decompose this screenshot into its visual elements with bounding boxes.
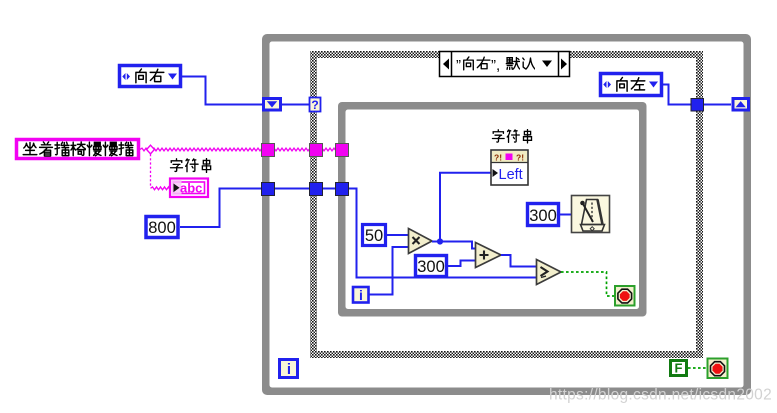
wire: add to greater [501, 255, 536, 267]
svg-text:abc: abc [180, 181, 202, 196]
property node 字符串 Left [492, 130, 531, 144]
loop condition terminal (outer stop) [708, 359, 728, 379]
wire: string (pink squiggle) to tunnels [140, 148, 341, 151]
svg-text:300: 300 [417, 258, 445, 276]
wire: shift register to case selector ? [282, 104, 310, 106]
tunnel on case structure (enum out) [691, 99, 704, 112]
svg-text:50: 50 [365, 227, 383, 245]
svg-text:F: F [675, 361, 683, 376]
iteration terminal i (outer loop) [280, 360, 298, 379]
tunnel (string) on inner loop [336, 144, 349, 157]
wire: multiply to property node Left [440, 173, 491, 241]
wire: 向右 to left shift register [182, 77, 262, 105]
while loop (outer) border [262, 34, 751, 395]
while loop (inner) border [338, 102, 647, 317]
wire junction diamond [147, 145, 155, 154]
svg-text:?!: ?! [516, 153, 524, 163]
numeric constant 300 (inner) [416, 256, 447, 277]
add node [476, 243, 502, 268]
multiply node [409, 229, 433, 254]
tunnel (string) on case structure [310, 144, 323, 157]
wire junction dot [437, 238, 443, 244]
label 字符串 (indicator) [171, 159, 211, 173]
svg-text:”: ” [456, 57, 461, 74]
boolean constant F [671, 361, 687, 376]
numeric constant 300 (wait) [528, 204, 559, 226]
tunnel (string) on outer loop [262, 144, 275, 157]
wire: multiply to add [432, 242, 476, 249]
shift register left terminal [264, 99, 281, 111]
case selector terminal ? [310, 98, 321, 113]
tunnel (numeric) on case structure [310, 183, 323, 196]
case selector label "向右", 默认 [440, 52, 570, 77]
svg-text:i: i [359, 287, 363, 303]
svg-text:i: i [287, 361, 291, 378]
string indicator terminal abc [170, 179, 208, 198]
iteration terminal i (inner loop) [353, 287, 369, 303]
numeric constant 50 [363, 225, 386, 246]
shift register right terminal [733, 99, 749, 111]
case structure border [310, 51, 703, 358]
svg-text:”,: ”, [491, 57, 500, 74]
wire: 800 to greater node (through tunnels) [180, 189, 536, 278]
wire: i to multiply [369, 247, 408, 295]
enum constant 向左 [601, 74, 662, 96]
tunnel (numeric) on outer loop [262, 183, 275, 196]
wire: 300 to wait node [560, 214, 571, 216]
wire: branch down to 字符串 indicator [150, 154, 152, 187]
wait until next ms multiple node [572, 196, 610, 233]
wire: 向左 to right shift register [663, 85, 731, 105]
greater node [537, 260, 562, 285]
svg-text:300: 300 [529, 207, 557, 225]
tunnel (numeric) on inner loop [336, 183, 349, 196]
svg-text:https://blog.csdn.net/icsdn200: https://blog.csdn.net/icsdn2002 [549, 387, 772, 404]
wire: 300 to add [448, 261, 476, 267]
svg-text:?: ? [311, 98, 318, 112]
svg-text:800: 800 [148, 219, 176, 237]
wire: F to outer stop (green dotted) [688, 367, 707, 369]
numeric constant 800 [146, 217, 178, 238]
svg-text:?!: ?! [494, 153, 502, 163]
enum constant 向右 [120, 66, 181, 87]
wire: greater to inner stop (green dotted) [561, 272, 615, 296]
wire: 50 to multiply [387, 234, 408, 236]
loop condition terminal (inner stop) [615, 286, 635, 306]
svg-text:Left: Left [499, 167, 523, 183]
string control 坐着摇椅慢慢摇 [17, 140, 139, 159]
